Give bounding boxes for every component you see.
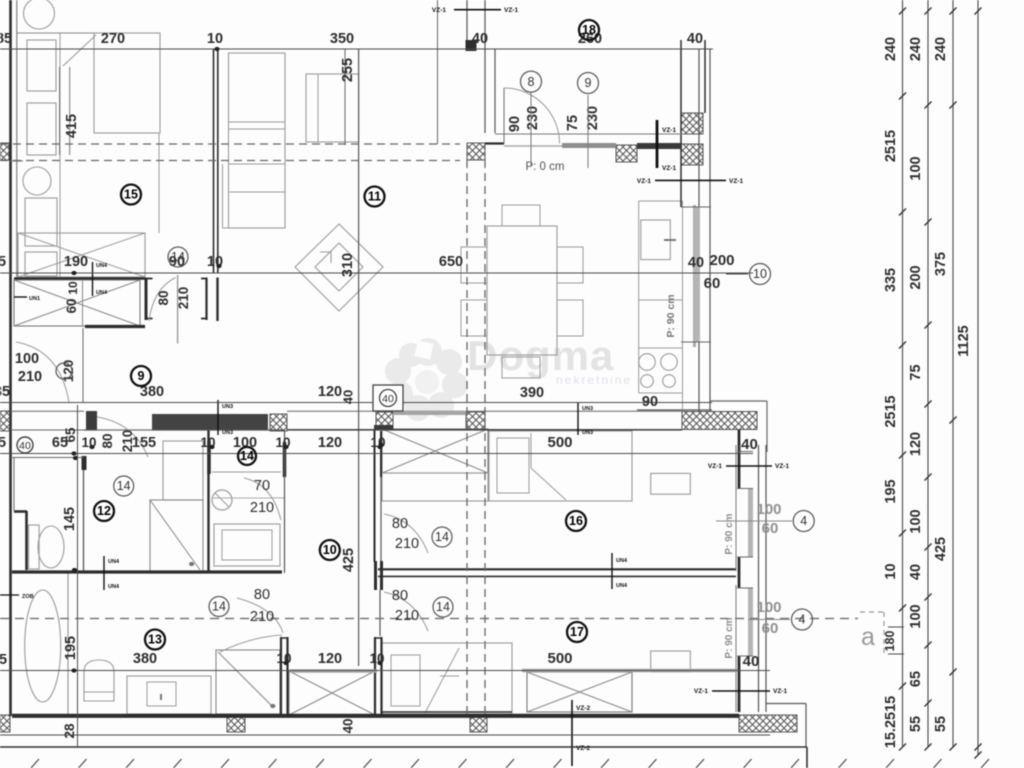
svg-text:5: 5 [0, 652, 7, 668]
svg-text:VZ-1: VZ-1 [504, 7, 518, 14]
svg-text:4: 4 [799, 613, 806, 627]
svg-text:40: 40 [687, 31, 703, 47]
svg-text:310: 310 [340, 253, 356, 277]
svg-text:VZ-1: VZ-1 [708, 463, 722, 470]
svg-text:15: 15 [124, 188, 138, 202]
svg-text:40: 40 [908, 564, 924, 580]
svg-text:2515: 2515 [883, 395, 899, 427]
svg-text:UN4: UN4 [96, 263, 108, 269]
svg-text:415: 415 [64, 114, 80, 138]
svg-text:60: 60 [704, 275, 721, 292]
svg-text:210: 210 [250, 500, 274, 516]
svg-text:90: 90 [642, 394, 658, 410]
svg-text:VZ-1: VZ-1 [729, 178, 743, 185]
svg-text:40: 40 [472, 31, 488, 47]
svg-text:5: 5 [0, 254, 6, 270]
svg-text:270: 270 [101, 31, 125, 47]
svg-text:75: 75 [908, 364, 924, 380]
svg-text:4: 4 [800, 514, 807, 528]
svg-text:VZ-1: VZ-1 [432, 7, 446, 14]
svg-text:100: 100 [908, 604, 924, 628]
svg-text:230: 230 [525, 106, 541, 130]
svg-text:14: 14 [435, 530, 449, 544]
svg-text:55: 55 [933, 716, 949, 732]
svg-text:210: 210 [18, 369, 42, 385]
svg-text:UN4: UN4 [616, 558, 628, 564]
svg-text:155: 155 [132, 435, 156, 451]
svg-text:UN4: UN4 [616, 583, 628, 589]
svg-text:13: 13 [148, 633, 162, 647]
svg-text:40: 40 [743, 653, 760, 670]
svg-text:UN3: UN3 [582, 406, 593, 412]
svg-text:60: 60 [762, 520, 779, 537]
svg-text:390: 390 [520, 385, 544, 401]
svg-text:375: 375 [933, 252, 949, 276]
svg-text:240: 240 [908, 37, 924, 61]
svg-text:55: 55 [908, 716, 924, 732]
svg-text:40: 40 [341, 718, 356, 733]
svg-text:10: 10 [66, 281, 80, 295]
svg-text:11: 11 [368, 190, 381, 204]
svg-text:P: 90 cm: P: 90 cm [724, 617, 735, 658]
svg-text:100: 100 [908, 156, 924, 180]
svg-text:65: 65 [908, 671, 924, 687]
svg-text:VZ-2: VZ-2 [576, 705, 590, 712]
svg-text:8: 8 [528, 75, 535, 89]
svg-text:VZ-1: VZ-1 [662, 127, 676, 134]
svg-text:70: 70 [254, 478, 270, 494]
svg-text:10: 10 [207, 31, 223, 47]
svg-text:UN4: UN4 [96, 290, 108, 296]
svg-text:12: 12 [97, 504, 111, 518]
svg-text:180: 180 [883, 631, 897, 652]
svg-text:80: 80 [156, 290, 171, 305]
svg-text:75: 75 [565, 115, 581, 131]
svg-text:40: 40 [741, 436, 758, 453]
svg-text:500: 500 [547, 434, 572, 451]
svg-text:120: 120 [318, 384, 342, 400]
svg-text:UN3: UN3 [222, 404, 233, 410]
svg-text:35: 35 [0, 384, 10, 400]
svg-text:350: 350 [330, 31, 354, 47]
svg-text:90: 90 [507, 116, 523, 132]
svg-text:14: 14 [240, 449, 254, 463]
svg-text:210: 210 [176, 287, 191, 310]
svg-text:40: 40 [19, 440, 31, 452]
svg-text:100: 100 [756, 501, 781, 518]
svg-text:120: 120 [318, 651, 342, 667]
svg-text:190: 190 [64, 254, 88, 270]
svg-text:17: 17 [570, 625, 584, 639]
svg-text:40: 40 [341, 390, 356, 404]
svg-text:1125: 1125 [956, 325, 972, 356]
svg-text:14: 14 [212, 600, 226, 614]
svg-text:650: 650 [439, 254, 463, 270]
svg-text:P: 90 cm: P: 90 cm [724, 513, 735, 554]
svg-text:UN1: UN1 [29, 296, 40, 302]
svg-text:UN4: UN4 [108, 584, 120, 590]
svg-text:240: 240 [933, 37, 949, 61]
svg-text:80: 80 [254, 587, 270, 603]
svg-text:210: 210 [250, 609, 274, 625]
svg-text:120: 120 [908, 432, 924, 456]
svg-text:UN4: UN4 [108, 559, 120, 565]
svg-text:28: 28 [62, 723, 77, 739]
svg-text:UN3: UN3 [582, 430, 593, 436]
svg-text:100: 100 [15, 351, 39, 367]
svg-text:145: 145 [62, 507, 78, 531]
svg-text:335: 335 [883, 268, 899, 292]
svg-text:230: 230 [585, 106, 601, 130]
svg-text:16: 16 [569, 514, 583, 528]
svg-text:80: 80 [100, 433, 115, 448]
svg-text:10: 10 [883, 563, 899, 579]
svg-text:18: 18 [582, 23, 596, 37]
svg-text:UN3: UN3 [222, 430, 233, 436]
svg-text:9: 9 [138, 369, 145, 383]
svg-text:VZ-1: VZ-1 [662, 165, 676, 172]
svg-text:200: 200 [908, 265, 924, 289]
svg-text:10: 10 [323, 543, 337, 557]
svg-text:VZ-1: VZ-1 [694, 688, 708, 695]
svg-text:120: 120 [318, 435, 342, 451]
svg-text:5: 5 [0, 435, 6, 451]
svg-text:9: 9 [585, 76, 592, 90]
svg-text:nekretnine: nekretnine [556, 373, 632, 387]
svg-text:210: 210 [120, 430, 135, 453]
svg-text:380: 380 [133, 651, 157, 667]
svg-text:425: 425 [341, 548, 357, 572]
svg-text:40: 40 [688, 255, 704, 271]
svg-text:100: 100 [756, 599, 781, 616]
svg-text:40: 40 [382, 393, 394, 405]
svg-text:14: 14 [436, 600, 450, 614]
svg-text:240: 240 [883, 37, 899, 61]
svg-text:210: 210 [395, 536, 419, 552]
svg-text:VZ-1: VZ-1 [773, 688, 787, 695]
svg-text:10: 10 [753, 267, 767, 281]
svg-text:a: a [861, 623, 875, 651]
svg-text:100: 100 [908, 509, 924, 533]
svg-text:15.2515: 15.2515 [883, 696, 899, 748]
svg-text:60: 60 [64, 298, 79, 313]
svg-text:14: 14 [117, 479, 131, 493]
svg-text:2515: 2515 [883, 130, 899, 162]
svg-text:65: 65 [63, 427, 78, 443]
svg-text:200: 200 [709, 252, 734, 269]
svg-text:500: 500 [547, 650, 572, 667]
svg-text:P: 90 cm: P: 90 cm [665, 294, 677, 337]
svg-text:VZ-2: VZ-2 [576, 745, 590, 752]
svg-text:14: 14 [171, 250, 185, 264]
svg-text:210: 210 [395, 608, 419, 624]
svg-text:195: 195 [63, 636, 79, 660]
svg-text:425: 425 [933, 537, 949, 561]
svg-text:60: 60 [762, 620, 779, 637]
svg-text:ZOB: ZOB [22, 594, 34, 600]
svg-text:80: 80 [392, 588, 408, 604]
svg-text:85: 85 [0, 31, 12, 47]
svg-text:255: 255 [340, 58, 356, 82]
svg-text:80: 80 [392, 516, 408, 532]
svg-text:VZ-1: VZ-1 [637, 178, 651, 185]
svg-text:195: 195 [883, 479, 899, 503]
svg-text:VZ-1: VZ-1 [775, 463, 789, 470]
